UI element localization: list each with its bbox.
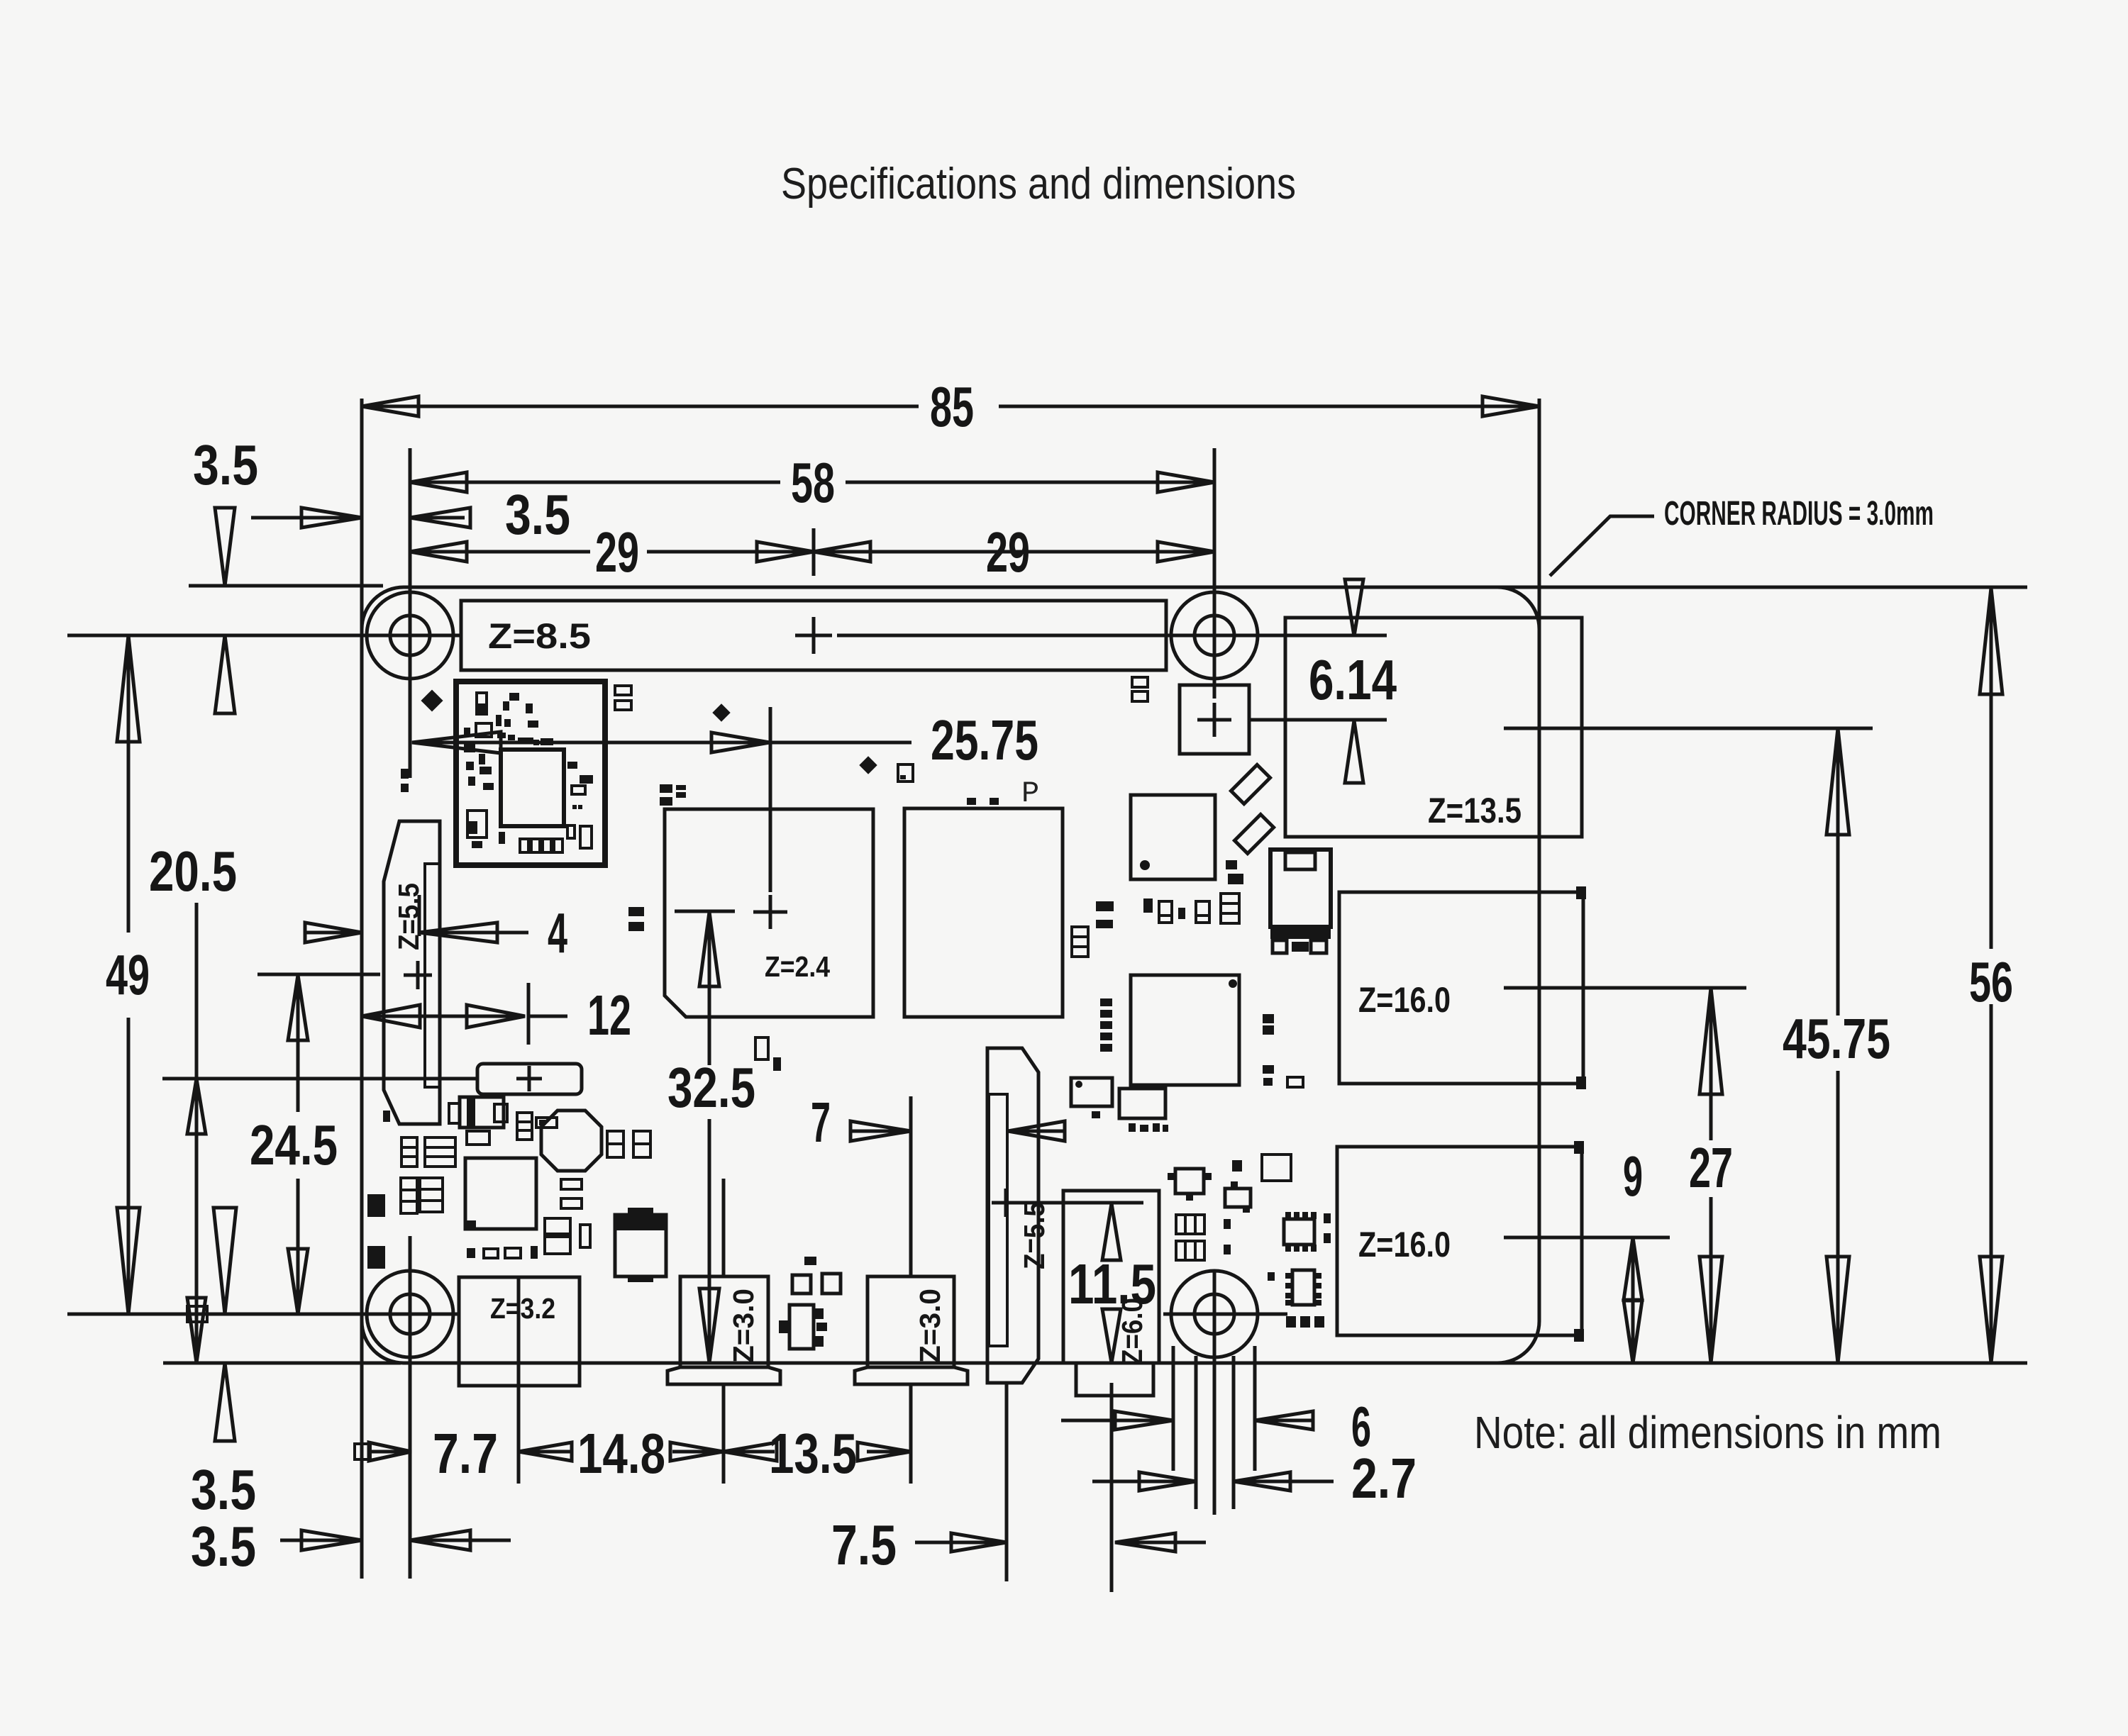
banded part column B [420, 1178, 443, 1212]
svg-text:Z=16.0: Z=16.0 [1358, 1225, 1451, 1264]
diagonal part near PoE upper [1231, 764, 1270, 803]
pad left of U8 [1268, 1272, 1275, 1281]
USB upper centerline [1504, 986, 1746, 990]
dimension 32.5 [708, 912, 711, 1065]
wireless module shield chip [501, 750, 564, 826]
dimension 6 hole pad [1061, 1419, 1173, 1423]
IC U8 8-pin [1292, 1270, 1314, 1305]
diagonal part near PoE lower [1234, 814, 1273, 853]
svg-text:Z=3.0: Z=3.0 [914, 1289, 946, 1363]
svg-text:3.5: 3.5 [191, 1515, 256, 1578]
svg-text:32.5: 32.5 [667, 1056, 755, 1119]
wireless module small parts [464, 693, 593, 848]
svg-text:85: 85 [930, 375, 974, 438]
parts below SoC [755, 1037, 768, 1059]
Ethernet jack J6 [1285, 618, 1582, 837]
extension lines hole pad 6 [1172, 1346, 1175, 1471]
micro-USB power centerline [517, 1276, 521, 1484]
RAM U2 [904, 808, 1063, 1017]
board outline [362, 587, 1539, 1363]
svg-text:2.7: 2.7 [1351, 1447, 1417, 1510]
hole centerline bottom-right horizontal [1163, 1313, 1287, 1316]
extension line left edge bottom [360, 1319, 364, 1579]
diamond fiducial left of wifi [421, 689, 443, 711]
wide pads right of banded columns [561, 1179, 582, 1189]
three pads below U8 [1286, 1316, 1296, 1328]
PoE header J14 [1180, 685, 1249, 754]
svg-text:24.5: 24.5 [250, 1113, 338, 1176]
small pad pair mid [536, 1118, 557, 1128]
pads right of LAN [1226, 860, 1237, 869]
dimension 58 [410, 481, 780, 484]
USB lower centerline [1504, 1236, 1670, 1240]
dimension 29 left [410, 550, 590, 554]
banded part below crystal B [425, 1137, 455, 1167]
parts row below LAN [1143, 898, 1153, 913]
pads left of SoC mid [628, 907, 644, 916]
part left of CSI top [1071, 1078, 1112, 1106]
USB stack upper J9 [1339, 892, 1583, 1084]
dimension 45.75 [1836, 728, 1840, 1016]
svg-text:3.5: 3.5 [191, 1458, 256, 1521]
part above SOT23 [1262, 1154, 1291, 1181]
AV connector J2 [868, 1276, 954, 1367]
fiducial diamond right [859, 756, 877, 774]
capacitor C1 stadium [477, 1064, 582, 1094]
extension lines hole bore 2.7 [1195, 1356, 1198, 1509]
pads right of hub chip [1263, 1014, 1274, 1023]
svg-text:Z=3.2: Z=3.2 [490, 1292, 555, 1325]
part right of RAM [1072, 927, 1088, 957]
dimension 29 right tick [812, 528, 816, 576]
crystal X1 [460, 1097, 504, 1128]
SoC centerline horizontal tick [675, 910, 735, 913]
CSI center mark [992, 1189, 1020, 1217]
hole centerline top row horizontal left [67, 634, 461, 638]
IC U7 with pins [1284, 1219, 1314, 1245]
LAN controller U4 [1131, 795, 1215, 879]
extension line capacitor center [162, 1077, 477, 1081]
small outline part above RAM [898, 764, 913, 781]
svg-text:29: 29 [986, 521, 1030, 584]
svg-text:12: 12 [587, 984, 631, 1047]
pads left below wifi [401, 769, 409, 779]
extension line bottom edge left [163, 1362, 401, 1365]
extension line bottom edge right [1492, 1362, 2027, 1365]
electrolytic capacitor C2 [615, 1215, 666, 1276]
svg-text:58: 58 [791, 451, 835, 514]
SoC U1 BCM2837 [665, 809, 873, 1017]
mounting hole top-left [367, 592, 453, 679]
pads right of U7 [1324, 1213, 1331, 1223]
dimension 12 [362, 1005, 420, 1028]
hole centerline top-left vertical [409, 448, 412, 778]
regulator part between LAN and hub [1270, 850, 1331, 927]
audio jack centerline bottom [1110, 1383, 1114, 1592]
corner radius leader line [1550, 516, 1654, 576]
extension line CSI center horizontal [1013, 1201, 1143, 1205]
extension line DSI center [257, 973, 380, 976]
small part left edge [383, 1111, 390, 1122]
svg-text:20.5: 20.5 [149, 840, 237, 903]
PMIC U6 [465, 1158, 536, 1229]
GPIO header J8 [461, 601, 1166, 670]
transistor between HDMI and AV [789, 1305, 814, 1349]
svg-text:49: 49 [106, 943, 150, 1006]
HDMI connector J7 [680, 1276, 768, 1367]
dimension 56 [1990, 588, 1993, 949]
svg-text:CORNER RADIUS = 3.0mm: CORNER RADIUS = 3.0mm [1664, 495, 1934, 533]
Ethernet centerline [1504, 727, 1873, 730]
svg-text:45.75: 45.75 [1783, 1007, 1890, 1070]
hole centerline bottom-left vertical [409, 1236, 412, 1579]
dimension 7.7 [355, 1444, 370, 1459]
svg-text:27: 27 [1689, 1136, 1733, 1199]
svg-text:29: 29 [595, 521, 639, 584]
capacitor C1 center mark [516, 1066, 542, 1091]
svg-text:4: 4 [548, 901, 567, 964]
dimension 49 [127, 635, 131, 933]
micro-USB power connector J1 [459, 1277, 580, 1386]
dimension 2.7 hole bore [1092, 1480, 1196, 1484]
dimension 25.75 [412, 732, 501, 753]
svg-text:14.8: 14.8 [577, 1422, 665, 1485]
HDMI centerline below [722, 1384, 726, 1484]
mounting hole top-right [1171, 592, 1258, 679]
AV connector centerline [909, 1096, 913, 1276]
svg-text:Z=5.5: Z=5.5 [1018, 1202, 1051, 1269]
dimension 3.5 horizontal top [251, 516, 362, 520]
svg-text:56: 56 [1969, 950, 2013, 1013]
USB upper mount tabs [1576, 886, 1586, 899]
DSI display connector J3 [384, 821, 440, 1124]
extension line left edge top [360, 399, 364, 695]
pads right of wifi [615, 686, 631, 695]
pads row below IC [1129, 1123, 1136, 1132]
svg-text:Specifications and dimensions: Specifications and dimensions [781, 160, 1296, 208]
PoE header center mark [1197, 703, 1231, 737]
audio jack J5 [1063, 1191, 1159, 1363]
banded part column A [401, 1178, 417, 1213]
GPIO centerline horizontal right [837, 634, 1387, 638]
CSI centerline bottom [1005, 1383, 1009, 1581]
pads right of RAM [1096, 901, 1114, 911]
extension line right edge top [1538, 399, 1541, 716]
extension line top edge left [189, 584, 383, 588]
pads left of SoC top [660, 784, 672, 793]
wireless module outline parts [477, 693, 487, 714]
dimension 4 [305, 931, 362, 935]
mounting hole bottom-left [367, 1271, 453, 1357]
extension line 12 reference [527, 983, 531, 1045]
resistor pair right cluster [1176, 1215, 1204, 1234]
svg-text:Z=8.5: Z=8.5 [488, 616, 591, 656]
svg-text:3.5: 3.5 [505, 483, 570, 546]
SOT23 Q1 [1175, 1169, 1204, 1193]
USB hub chip U5 [1131, 975, 1239, 1085]
hole centerline top-right vertical [1213, 448, 1217, 699]
svg-text:7.7: 7.7 [433, 1422, 498, 1485]
extension line top edge right [1492, 586, 2027, 589]
svg-text:25.75: 25.75 [931, 708, 1038, 772]
DSI center mark [404, 961, 432, 989]
pads right of octagon [607, 1131, 624, 1157]
tall banded part left of octagon [517, 1113, 532, 1140]
pads row below PMIC [467, 1248, 475, 1258]
dimension 24.5 [297, 975, 300, 1112]
SoC centerline vertical [769, 707, 772, 892]
hole centerline bottom row horizontal left [67, 1313, 459, 1316]
dimension 85 [362, 405, 919, 408]
pads on RAM top edge [967, 798, 976, 805]
HDMI centerline above [722, 1179, 726, 1276]
svg-text:7.5: 7.5 [831, 1513, 897, 1576]
SOT23 Q2 [1225, 1189, 1251, 1207]
USB lower mount tabs [1574, 1141, 1584, 1154]
svg-text:9: 9 [1623, 1145, 1643, 1208]
svg-text:Z=16.0: Z=16.0 [1358, 980, 1451, 1020]
inductor L1 octagon [541, 1111, 602, 1171]
stacked pads right of PMIC [545, 1218, 570, 1234]
extension line DSI slot center [418, 895, 421, 936]
svg-text:Z=3.0: Z=3.0 [727, 1289, 760, 1363]
pads right cluster small [1224, 1219, 1231, 1229]
dimension 27 [1709, 988, 1713, 1140]
svg-text:P: P [1021, 777, 1039, 811]
dimension 11.5 [1102, 1203, 1121, 1260]
pad left of that part [1232, 1160, 1242, 1172]
parts above HDMI [792, 1275, 811, 1293]
svg-text:Note: all dimensions in mm: Note: all dimensions in mm [1474, 1407, 1941, 1458]
svg-text:11.5: 11.5 [1068, 1252, 1156, 1315]
svg-text:Z=2.4: Z=2.4 [765, 950, 830, 983]
pads below GPIO right end [1132, 677, 1148, 687]
USB stack lower J10 [1337, 1147, 1582, 1335]
svg-text:6.14: 6.14 [1309, 648, 1397, 711]
dimension 13.5 [724, 1442, 777, 1461]
svg-text:Z=13.5: Z=13.5 [1428, 791, 1522, 830]
PoE centerline horizontal [1249, 718, 1387, 722]
mounting hole bottom-right [1171, 1271, 1258, 1357]
dark pads left edge [367, 1194, 385, 1217]
banded part below crystal A [401, 1137, 417, 1167]
dimension 3.5 bottom vertical [214, 1208, 236, 1314]
wireless module bottom pads [520, 839, 528, 852]
svg-text:3.5: 3.5 [193, 433, 258, 496]
fiducial diamond centre [712, 703, 730, 721]
ladder pads left of hub chip [1100, 998, 1112, 1006]
CSI camera connector J4 [987, 1048, 1038, 1383]
hole centerline bottom-right vertical [1213, 1272, 1217, 1515]
svg-text:7: 7 [811, 1091, 831, 1154]
svg-text:13.5: 13.5 [769, 1422, 857, 1485]
wireless module U3 [456, 681, 605, 865]
GPIO header center mark [795, 617, 832, 654]
IC above AV jack [1119, 1089, 1165, 1118]
SoC center mark [753, 895, 787, 929]
